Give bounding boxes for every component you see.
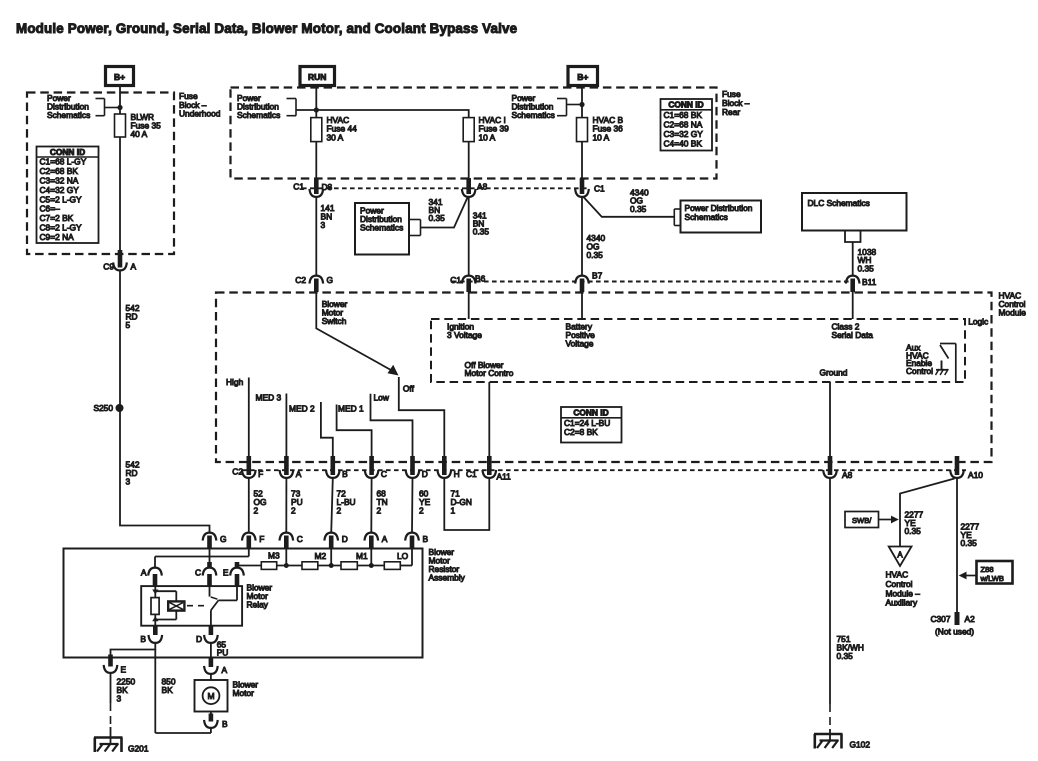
svg-text:MED 2: MED 2 [289, 403, 315, 413]
svg-text:C4=40 BK: C4=40 BK [664, 138, 703, 148]
svg-text:0.35: 0.35 [837, 651, 854, 661]
svg-text:3: 3 [126, 476, 131, 486]
svg-text:Voltage: Voltage [566, 339, 594, 349]
svg-text:PU: PU [217, 648, 229, 658]
svg-text:Schematics: Schematics [685, 212, 728, 222]
svg-text:MED 1: MED 1 [338, 403, 364, 413]
svg-text:D8: D8 [322, 182, 333, 192]
svg-text:2: 2 [254, 505, 259, 515]
svg-text:D: D [196, 634, 202, 644]
svg-text:2: 2 [337, 505, 342, 515]
svg-text:3: 3 [321, 220, 326, 230]
svg-text:High: High [226, 377, 244, 387]
svg-text:3: 3 [117, 693, 122, 703]
svg-text:Relay: Relay [247, 600, 269, 610]
svg-text:B+: B+ [577, 72, 588, 82]
svg-text:Ground: Ground [820, 368, 848, 378]
svg-text:Switch: Switch [322, 316, 347, 326]
svg-text:F: F [258, 469, 263, 479]
svg-text:2: 2 [419, 505, 424, 515]
svg-text:F: F [259, 534, 264, 544]
svg-text:G: G [220, 534, 227, 544]
svg-text:CONN ID: CONN ID [50, 147, 85, 157]
svg-text:0.35: 0.35 [961, 538, 978, 548]
svg-text:M3: M3 [268, 551, 280, 561]
svg-text:G102: G102 [850, 740, 871, 750]
svg-text:B11: B11 [862, 277, 877, 287]
svg-text:0.35: 0.35 [587, 250, 604, 260]
svg-text:B: B [342, 469, 348, 479]
svg-text:0.35: 0.35 [858, 264, 875, 274]
svg-text:C9=2 NA: C9=2 NA [40, 232, 75, 242]
svg-text:3 Voltage: 3 Voltage [447, 330, 482, 340]
svg-text:C2: C2 [295, 275, 306, 285]
svg-text:Motor: Motor [233, 688, 255, 698]
svg-text:Schematics: Schematics [512, 110, 555, 120]
svg-text:LO: LO [397, 551, 409, 561]
svg-text:C3=32 GY: C3=32 GY [664, 129, 704, 139]
svg-text:10 A: 10 A [593, 132, 610, 142]
svg-text:40 A: 40 A [131, 129, 148, 139]
svg-text:Auxiliary: Auxiliary [886, 598, 918, 608]
svg-text:30 A: 30 A [327, 132, 344, 142]
svg-text:Schematics: Schematics [237, 110, 280, 120]
svg-text:A8: A8 [842, 470, 853, 480]
svg-text:CONN ID: CONN ID [668, 100, 703, 110]
svg-text:SWB/: SWB/ [852, 516, 872, 525]
svg-text:A2: A2 [965, 614, 976, 624]
svg-text:Motor Contro: Motor Contro [465, 368, 514, 378]
svg-text:G201: G201 [128, 744, 149, 754]
svg-text:A11: A11 [497, 472, 512, 482]
svg-text:M2: M2 [315, 551, 327, 561]
svg-text:0.35: 0.35 [630, 204, 647, 214]
svg-text:D: D [422, 469, 428, 479]
svg-text:S250: S250 [93, 403, 113, 413]
svg-text:C2: C2 [232, 466, 243, 476]
svg-text:Rear: Rear [722, 107, 740, 117]
svg-text:E: E [121, 664, 127, 674]
svg-text:A: A [222, 665, 228, 675]
svg-text:0.35: 0.35 [905, 526, 922, 536]
svg-text:RUN: RUN [308, 72, 326, 82]
svg-text:A10: A10 [968, 470, 983, 480]
svg-text:B: B [140, 634, 146, 644]
svg-text:C: C [381, 469, 387, 479]
svg-text:Z88: Z88 [981, 565, 994, 574]
svg-text:(Not used): (Not used) [935, 627, 974, 637]
svg-text:Serial Data: Serial Data [832, 330, 874, 340]
svg-text:10 A: 10 A [479, 132, 496, 142]
svg-text:Underhood: Underhood [179, 109, 221, 119]
svg-text:CONN ID: CONN ID [573, 408, 608, 418]
svg-text:Assembly: Assembly [429, 573, 466, 583]
svg-text:C: C [195, 567, 201, 577]
svg-text:2: 2 [377, 505, 382, 515]
svg-text:A: A [897, 551, 903, 560]
svg-text:C1=68 BK: C1=68 BK [664, 110, 703, 120]
svg-text:C1: C1 [594, 183, 605, 193]
svg-text:Schematics: Schematics [47, 110, 90, 120]
svg-text:Off: Off [403, 383, 415, 393]
svg-text:C2=8 BK: C2=8 BK [564, 427, 598, 437]
svg-text:C9: C9 [103, 262, 114, 272]
svg-text:0.35: 0.35 [429, 213, 446, 223]
svg-text:Module Power, Ground, Serial D: Module Power, Ground, Serial Data, Blowe… [16, 21, 517, 36]
svg-text:H: H [454, 469, 460, 479]
svg-text:B: B [222, 719, 228, 729]
svg-text:Control: Control [906, 366, 933, 376]
svg-text:DLC Schematics: DLC Schematics [808, 198, 870, 208]
svg-text:0.35: 0.35 [473, 227, 490, 237]
svg-text:1: 1 [451, 505, 456, 515]
svg-text:w/LWB: w/LWB [980, 574, 1005, 583]
svg-text:C1: C1 [466, 469, 477, 479]
svg-text:A: A [382, 534, 388, 544]
svg-text:B+: B+ [114, 72, 125, 82]
svg-text:C1: C1 [450, 275, 461, 285]
svg-text:G: G [327, 275, 334, 285]
svg-text:C307: C307 [930, 614, 950, 624]
svg-text:2: 2 [291, 505, 296, 515]
svg-text:E: E [223, 567, 229, 577]
svg-text:D: D [342, 534, 348, 544]
svg-text:C: C [297, 534, 303, 544]
svg-text:M: M [207, 691, 214, 701]
svg-text:B6: B6 [475, 274, 486, 284]
svg-text:Low: Low [374, 393, 390, 403]
svg-text:M1: M1 [356, 551, 368, 561]
svg-text:C1: C1 [293, 182, 304, 192]
svg-text:A: A [141, 567, 147, 577]
svg-text:C2=68 NA: C2=68 NA [664, 119, 703, 129]
svg-text:A8: A8 [477, 181, 488, 191]
svg-text:B: B [423, 534, 429, 544]
svg-text:B7: B7 [592, 271, 603, 281]
svg-text:A: A [296, 469, 302, 479]
svg-text:Schematics: Schematics [360, 223, 403, 233]
svg-text:BK: BK [162, 685, 174, 695]
svg-text:Logic: Logic [968, 317, 988, 327]
svg-text:5: 5 [126, 320, 131, 330]
svg-text:Module: Module [999, 308, 1027, 318]
svg-text:MED 3: MED 3 [256, 392, 282, 402]
svg-text:A: A [131, 262, 137, 272]
